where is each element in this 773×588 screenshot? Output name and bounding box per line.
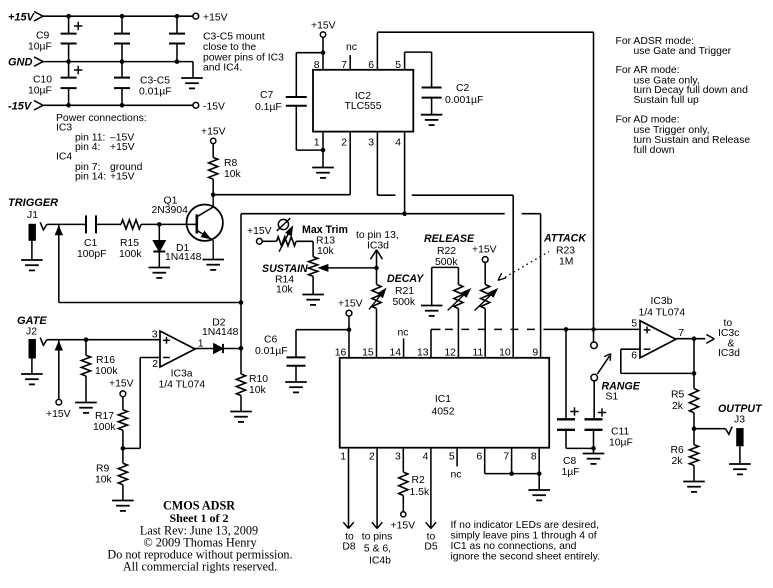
potentiometer R23 ATTACK (484, 262, 486, 284)
svg-text:100k: 100k (93, 422, 116, 433)
svg-text:C2: C2 (456, 83, 470, 94)
svg-text:8: 8 (314, 60, 320, 71)
wire IC2 pin 4 to IC1 pin 9 and envelope node (404, 132, 406, 214)
wire IC1 pin 4 LED arrow (430, 448, 432, 529)
svg-text:+15V: +15V (338, 299, 363, 310)
svg-text:R15: R15 (120, 238, 139, 249)
svg-text:0.01µF: 0.01µF (255, 346, 288, 357)
svg-text:+15V: +15V (311, 21, 336, 32)
svg-text:500k: 500k (393, 297, 416, 308)
trimmer R13 Max Trim (277, 237, 297, 246)
svg-text:10: 10 (499, 347, 511, 358)
svg-text:IC4: IC4 (56, 152, 72, 163)
wire R13 to R14 (296, 240, 313, 242)
capacitor C1 (85, 215, 87, 233)
svg-text:C10: C10 (33, 75, 52, 86)
svg-text:All commercial rights reserved: All commercial rights reserved. (123, 559, 277, 573)
svg-text:+15V: +15V (203, 12, 228, 23)
node +15V for R2 (401, 512, 406, 517)
svg-text:10k: 10k (224, 169, 242, 180)
svg-text:C1: C1 (84, 238, 98, 249)
svg-text:R22: R22 (437, 246, 456, 257)
svg-text:1N4148: 1N4148 (165, 252, 202, 263)
svg-text:For AD mode:: For AD mode: (616, 115, 680, 126)
svg-text:6: 6 (476, 452, 482, 463)
ground R6 (683, 481, 705, 483)
svg-text:2: 2 (369, 452, 375, 463)
svg-text:5: 5 (395, 60, 401, 71)
svg-text:D5: D5 (424, 542, 438, 553)
wire trigger to C1 (47, 223, 86, 225)
resistor R2 (402, 448, 404, 472)
wire dashed signal line (445, 328, 548, 330)
wire R8 to collector node (212, 179, 214, 195)
svg-text:R8: R8 (224, 158, 238, 169)
junction collector node (211, 192, 216, 197)
svg-text:10µF: 10µF (28, 42, 52, 53)
svg-text:R23: R23 (556, 246, 575, 257)
svg-text:R13: R13 (316, 235, 335, 246)
op-amp IC3a (160, 331, 195, 367)
svg-text:D8: D8 (342, 542, 356, 553)
svg-text:Max Trim: Max Trim (302, 224, 348, 236)
svg-text:14: 14 (390, 347, 402, 358)
junction +15V/C3 (120, 14, 125, 19)
capacitor C5 (176, 16, 178, 33)
svg-text:If no indicator LEDs are desir: If no indicator LEDs are desired, (451, 520, 599, 531)
svg-text:SUSTAIN: SUSTAIN (262, 263, 308, 275)
svg-text:simply leave pins 1 through 4: simply leave pins 1 through 4 of (451, 531, 597, 542)
svg-text:9: 9 (532, 347, 538, 358)
svg-text:nc: nc (451, 469, 462, 480)
svg-text:7: 7 (503, 452, 509, 463)
junction gate/R16 (84, 337, 89, 342)
svg-text:Sustain full up: Sustain full up (634, 95, 699, 106)
svg-text:to pins: to pins (362, 532, 393, 543)
svg-text:R16: R16 (96, 355, 115, 366)
junction GND/C3 (120, 59, 125, 64)
svg-text:7: 7 (678, 328, 684, 339)
svg-text:close to the: close to the (203, 42, 256, 53)
svg-text:10k: 10k (249, 385, 267, 396)
svg-text:1: 1 (340, 452, 346, 463)
svg-text:C7: C7 (260, 90, 274, 101)
capacitor C7 (296, 52, 323, 54)
node -15V input connector (34, 101, 43, 106)
svg-text:7: 7 (341, 60, 347, 71)
ground R10 (230, 411, 252, 413)
junction R17/R9 (121, 446, 126, 451)
junction S1 tap (591, 327, 596, 332)
resistor R5 (693, 373, 695, 388)
wire +15V to pin 16 (348, 316, 350, 358)
svg-text:nc: nc (346, 42, 357, 53)
svg-text:6: 6 (631, 351, 637, 362)
junction -15V/C10 (66, 103, 71, 108)
wire +15V to R13 (262, 240, 276, 242)
svg-text:0.1µF: 0.1µF (255, 102, 282, 113)
svg-text:R21: R21 (395, 286, 414, 297)
svg-text:-15V: -15V (203, 101, 225, 112)
svg-text:J3: J3 (734, 414, 745, 425)
svg-text:+15V: +15V (110, 172, 135, 183)
svg-text:nc: nc (398, 328, 409, 339)
wire IC2 pin 6 net down right side (593, 32, 595, 329)
svg-text:6: 6 (368, 60, 374, 71)
ground C2 (421, 114, 443, 116)
svg-text:10k: 10k (95, 475, 113, 486)
svg-text:C3-C5 mount: C3-C5 mount (203, 32, 265, 43)
junction IC3b output (692, 336, 697, 341)
svg-text:R10: R10 (249, 374, 268, 385)
wire R17 node to IC3a pin 2 (123, 447, 140, 449)
resistor R10 (240, 348, 242, 374)
svg-text:0.001µF: 0.001µF (445, 95, 483, 106)
wire R15 to Q1 base (141, 223, 197, 225)
junction -15V/C4 (120, 103, 125, 108)
svg-text:ignore the second sheet entire: ignore the second sheet entirely. (451, 552, 600, 563)
svg-text:OUTPUT: OUTPUT (718, 403, 763, 415)
node +15V gate pullup (56, 399, 62, 405)
wire C1 to R15 (96, 223, 121, 225)
junction GND/C9 (66, 59, 71, 64)
svg-text:100k: 100k (119, 249, 142, 260)
svg-text:0.01µF: 0.01µF (139, 87, 172, 98)
capacitor C11 (593, 381, 595, 419)
svg-text:full down: full down (634, 145, 675, 156)
junction C6 node (347, 327, 352, 332)
svg-text:4: 4 (423, 452, 429, 463)
ground R9 (112, 500, 134, 502)
resistor R6 (693, 429, 695, 445)
svg-text:10k: 10k (317, 246, 335, 257)
svg-text:C9: C9 (36, 31, 50, 42)
wire IC3a output (194, 348, 214, 350)
svg-text:+15V: +15V (46, 409, 71, 420)
svg-text:R2: R2 (412, 475, 426, 486)
junction pin7 gnd (509, 471, 514, 476)
node +15V input connector (34, 12, 43, 17)
svg-text:RELEASE: RELEASE (424, 233, 475, 245)
svg-text:3: 3 (395, 452, 401, 463)
wire IC2 pin 1 (322, 132, 324, 168)
junction pin4 net (402, 211, 407, 216)
svg-text:2N3904: 2N3904 (152, 205, 189, 216)
junction GND/C5 (175, 59, 180, 64)
svg-text:3: 3 (152, 330, 158, 341)
svg-text:TLC555: TLC555 (345, 101, 382, 112)
svg-text:5: 5 (449, 452, 455, 463)
svg-text:+15V: +15V (201, 127, 226, 138)
junction +15V/C9 (66, 14, 71, 19)
svg-text:4052: 4052 (431, 407, 454, 418)
wire IC1 pin 1 LED arrow (348, 448, 350, 529)
resistor R8 (212, 144, 214, 158)
switch S1 RANGE (593, 329, 595, 342)
svg-text:2: 2 (152, 359, 158, 370)
junction D1 node (157, 222, 162, 227)
wire IC1 pins 6-7-8 to ground (484, 448, 486, 474)
resistor R15 (121, 220, 141, 229)
svg-text:IC3d: IC3d (718, 348, 740, 359)
svg-text:1: 1 (314, 137, 320, 148)
node GND input connector (34, 57, 43, 62)
svg-text:+15V: +15V (109, 379, 134, 390)
svg-text:15: 15 (362, 347, 374, 358)
node -15V terminal (193, 102, 199, 108)
wire dotted attack pointer (505, 252, 549, 278)
junction C8 tap (564, 327, 569, 332)
junction pin1/C7 (321, 148, 326, 153)
svg-text:GATE: GATE (17, 315, 47, 327)
ground R22 (421, 305, 443, 307)
capacitor C6 (296, 329, 349, 331)
svg-text:GND: GND (8, 57, 33, 69)
potentiometer R21 DECAY (372, 285, 381, 309)
svg-text:1/4 TL074: 1/4 TL074 (159, 380, 206, 391)
diode D2 (214, 344, 223, 354)
svg-text:IC1: IC1 (435, 394, 451, 405)
svg-text:S1: S1 (606, 391, 619, 402)
junction pin8 gnd (537, 471, 542, 476)
svg-text:R6: R6 (671, 445, 685, 456)
svg-text:pin 4:: pin 4: (75, 142, 100, 153)
svg-text:IC4b: IC4b (369, 556, 391, 567)
wire GND rail (43, 61, 193, 63)
wire IC2 pin 2 to Q1 collector (349, 132, 351, 195)
svg-text:10µF: 10µF (609, 438, 633, 449)
wire envelope node riser (240, 214, 242, 349)
junction C8/C11 (591, 446, 596, 451)
ground IC2 pin 1 (312, 167, 334, 169)
svg-text:11: 11 (473, 347, 484, 358)
junction +15V/C5 (175, 14, 180, 19)
svg-text:DECAY: DECAY (387, 273, 424, 285)
diode D1 (158, 224, 160, 240)
ground R14 (302, 294, 324, 296)
svg-text:-15V: -15V (8, 100, 33, 112)
capacitor C3 (121, 16, 123, 33)
ground D1 (149, 267, 171, 269)
svg-text:1M: 1M (559, 257, 573, 268)
wire IC1 pin 2 LED arrow (376, 448, 378, 529)
capacitor C8 (565, 329, 567, 419)
svg-text:C8: C8 (563, 456, 577, 467)
ground J2 (21, 373, 43, 375)
wire IC1 pin 14 nc stub (403, 339, 405, 358)
svg-text:R5: R5 (671, 390, 685, 401)
junction pin8/C7 (321, 50, 326, 55)
potentiometer R14 SUSTAIN (309, 257, 318, 277)
ground C8/C11 (583, 453, 605, 455)
capacitor C10 (68, 62, 70, 78)
svg-text:1N4148: 1N4148 (202, 327, 239, 338)
resistor R9 (122, 448, 124, 463)
svg-text:IC3a: IC3a (171, 369, 193, 380)
svg-text:ATTACK: ATTACK (543, 233, 587, 245)
svg-text:+15V: +15V (247, 226, 272, 237)
svg-text:12: 12 (444, 347, 456, 358)
svg-text:R17: R17 (95, 411, 114, 422)
node output to IC3c IC3d (706, 335, 714, 339)
svg-text:C6: C6 (264, 335, 278, 346)
svg-text:power pins of IC3: power pins of IC3 (203, 52, 284, 63)
svg-text:10µF: 10µF (28, 86, 52, 97)
wire +15V rail (43, 15, 193, 17)
svg-text:100pF: 100pF (77, 249, 106, 260)
capacitor C9 (68, 16, 70, 33)
ground IC1 pins 6-8 (528, 489, 550, 491)
ground GND rail (181, 77, 203, 79)
wire signal line to IC3b (548, 328, 640, 330)
capacitor C4 (121, 62, 123, 78)
svg-text:and IC4.: and IC4. (203, 63, 242, 74)
svg-text:C3-C5: C3-C5 (140, 76, 170, 87)
svg-text:J1: J1 (27, 210, 38, 221)
wire IC2 pin 8 (322, 37, 324, 70)
svg-text:1/4 TL074: 1/4 TL074 (639, 308, 686, 319)
svg-text:+15V: +15V (391, 521, 416, 532)
svg-text:5 & 6,: 5 & 6, (364, 544, 391, 555)
svg-text:1µF: 1µF (562, 467, 580, 478)
svg-text:use Gate and Trigger: use Gate and Trigger (634, 46, 732, 57)
svg-text:C11: C11 (611, 427, 630, 438)
svg-text:1.5k: 1.5k (410, 487, 430, 498)
resistor R17 (122, 397, 124, 410)
wire -15V rail (43, 104, 193, 106)
ground C6 (285, 381, 307, 383)
svg-text:5: 5 (631, 319, 637, 330)
svg-text:2k: 2k (672, 401, 684, 412)
svg-text:10k: 10k (276, 285, 294, 296)
wire IC2 pin 3 to IC1 pin 10 (376, 132, 378, 196)
ground J3 (729, 463, 751, 465)
junction R5/R6 (692, 426, 697, 431)
ground R16 (75, 402, 97, 404)
wire IC2 pin 5 (404, 52, 406, 70)
wire IC1 pin 13 to signal line (430, 329, 432, 357)
svg-text:4: 4 (395, 137, 401, 148)
svg-text:8: 8 (531, 452, 537, 463)
svg-text:+15V: +15V (8, 11, 36, 23)
svg-text:2: 2 (341, 137, 347, 148)
svg-text:IC3b: IC3b (651, 296, 673, 307)
svg-text:+15V: +15V (110, 142, 135, 153)
svg-text:2k: 2k (672, 456, 684, 467)
svg-text:pin 14:: pin 14: (75, 172, 106, 183)
wire trigger feedback arrow (58, 224, 60, 302)
svg-text:+15V: +15V (472, 245, 497, 256)
svg-text:IC1 as no connections, and: IC1 as no connections, and (451, 541, 577, 552)
wire IC2 pin 6 to threshold net (376, 32, 378, 70)
svg-text:3: 3 (368, 137, 374, 148)
wire IC2 pin 7 nc stub (349, 55, 351, 70)
op-amp IC1 4052 body (340, 358, 550, 448)
resistor R16 (85, 340, 87, 356)
capacitor C2 (431, 52, 433, 87)
svg-text:J2: J2 (26, 327, 37, 338)
svg-text:100k: 100k (95, 366, 118, 377)
svg-text:IC3: IC3 (56, 123, 72, 134)
wire gate line (47, 339, 160, 341)
node +15V terminal (193, 13, 199, 19)
svg-text:IC3d: IC3d (367, 240, 389, 251)
ground J1 (21, 259, 43, 261)
svg-text:500k: 500k (435, 257, 458, 268)
junction feedback/R5 (692, 371, 697, 376)
junction sustain wiper (374, 266, 379, 271)
junction trigger feedback (239, 300, 244, 305)
ground Q1 emitter (202, 259, 224, 261)
svg-text:16: 16 (335, 347, 347, 358)
svg-text:13: 13 (417, 347, 429, 358)
svg-text:TRIGGER: TRIGGER (8, 197, 58, 209)
op-amp IC2 TLC555 body (313, 70, 413, 132)
wire gate +15V pullup (58, 340, 60, 400)
wire IC1 pin 5 nc stub (456, 448, 458, 467)
junction envelope node (239, 346, 244, 351)
wire IC3b feedback (676, 338, 706, 340)
op-amp IC3b (640, 321, 676, 358)
svg-text:R9: R9 (96, 464, 110, 475)
